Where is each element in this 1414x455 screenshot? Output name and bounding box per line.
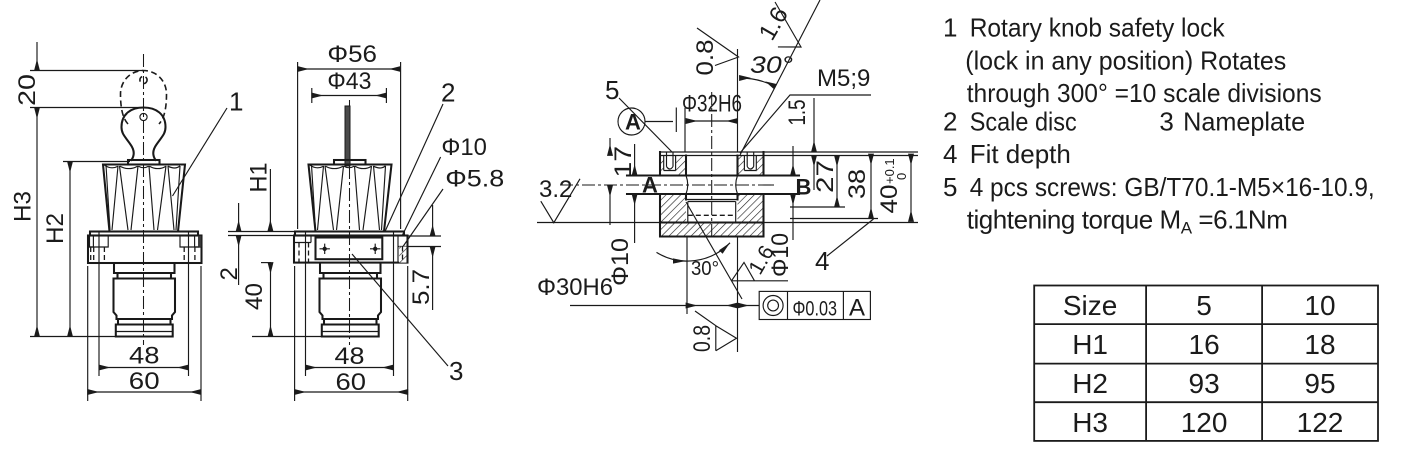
svg-text:Size: Size xyxy=(1063,290,1117,321)
svg-text:A: A xyxy=(625,110,641,135)
svg-text:A: A xyxy=(642,173,658,198)
svg-text:Φ43: Φ43 xyxy=(327,68,371,95)
svg-text:16: 16 xyxy=(1189,329,1220,360)
svg-text:H3: H3 xyxy=(1072,407,1108,438)
svg-text:3: 3 xyxy=(449,356,463,386)
svg-text:5.7: 5.7 xyxy=(408,269,435,305)
svg-text:120: 120 xyxy=(1181,407,1228,438)
svg-text:5: 5 xyxy=(943,172,957,202)
svg-text:3: 3 xyxy=(1159,107,1173,137)
svg-text:B: B xyxy=(796,175,812,200)
svg-text:4: 4 xyxy=(943,139,957,169)
svg-text:Nameplate: Nameplate xyxy=(1183,107,1305,137)
svg-text:Φ30H6: Φ30H6 xyxy=(537,274,613,301)
svg-text:48: 48 xyxy=(129,343,160,370)
svg-text:A: A xyxy=(849,295,865,322)
svg-text:Φ5.8: Φ5.8 xyxy=(445,166,504,193)
svg-text:Φ32H6: Φ32H6 xyxy=(682,91,742,118)
svg-text:95: 95 xyxy=(1304,368,1335,399)
svg-text:Φ56: Φ56 xyxy=(327,41,377,68)
svg-text:27: 27 xyxy=(812,160,839,193)
svg-text:18: 18 xyxy=(1304,329,1335,360)
svg-text:1: 1 xyxy=(229,87,243,117)
svg-text:122: 122 xyxy=(1297,407,1344,438)
svg-text:20: 20 xyxy=(14,74,41,106)
svg-text:60: 60 xyxy=(336,369,367,396)
svg-text:10: 10 xyxy=(1304,290,1335,321)
svg-text:0: 0 xyxy=(894,173,909,180)
svg-text:through 300° =10 scale divisio: through 300° =10 scale divisions xyxy=(967,78,1322,108)
svg-text:H2: H2 xyxy=(1072,368,1108,399)
svg-text:M5;9: M5;9 xyxy=(817,65,870,92)
svg-text:Fit depth: Fit depth xyxy=(970,139,1071,169)
svg-text:38: 38 xyxy=(844,169,871,199)
svg-text:Φ0.03: Φ0.03 xyxy=(793,298,838,321)
svg-text:0.8: 0.8 xyxy=(692,40,719,76)
svg-text:(lock in any position) Rotates: (lock in any position) Rotates xyxy=(965,45,1286,75)
svg-text:5: 5 xyxy=(605,75,619,105)
svg-text:Scale disc: Scale disc xyxy=(970,107,1077,137)
svg-text:2: 2 xyxy=(216,267,243,280)
svg-text:H1: H1 xyxy=(1072,329,1108,360)
svg-text:0.8: 0.8 xyxy=(689,325,716,352)
svg-text:5: 5 xyxy=(1196,290,1212,321)
svg-text:1.5: 1.5 xyxy=(784,100,811,126)
svg-text:60: 60 xyxy=(129,368,160,395)
svg-text:H1: H1 xyxy=(246,163,273,193)
svg-text:4: 4 xyxy=(815,246,829,276)
svg-text:17: 17 xyxy=(610,146,637,178)
svg-text:2: 2 xyxy=(441,78,455,108)
svg-text:30°: 30° xyxy=(691,258,719,280)
svg-text:4 pcs screws: GB/T70.1-M5×16-1: 4 pcs screws: GB/T70.1-M5×16-10.9, xyxy=(970,172,1375,202)
svg-text:Rotary knob safety lock: Rotary knob safety lock xyxy=(970,13,1226,43)
svg-text:1: 1 xyxy=(943,13,957,43)
svg-text:40: 40 xyxy=(876,185,903,214)
svg-text:H3: H3 xyxy=(10,191,37,222)
svg-text:30°: 30° xyxy=(750,52,793,79)
svg-text:48: 48 xyxy=(335,343,365,370)
svg-text:H2: H2 xyxy=(42,213,69,244)
svg-text:2: 2 xyxy=(943,107,957,137)
svg-text:40: 40 xyxy=(241,283,268,310)
svg-text:tightening torque MA =6.1Nm: tightening torque MA =6.1Nm xyxy=(967,204,1288,237)
svg-text:93: 93 xyxy=(1189,368,1220,399)
svg-text:Φ10: Φ10 xyxy=(441,134,487,161)
